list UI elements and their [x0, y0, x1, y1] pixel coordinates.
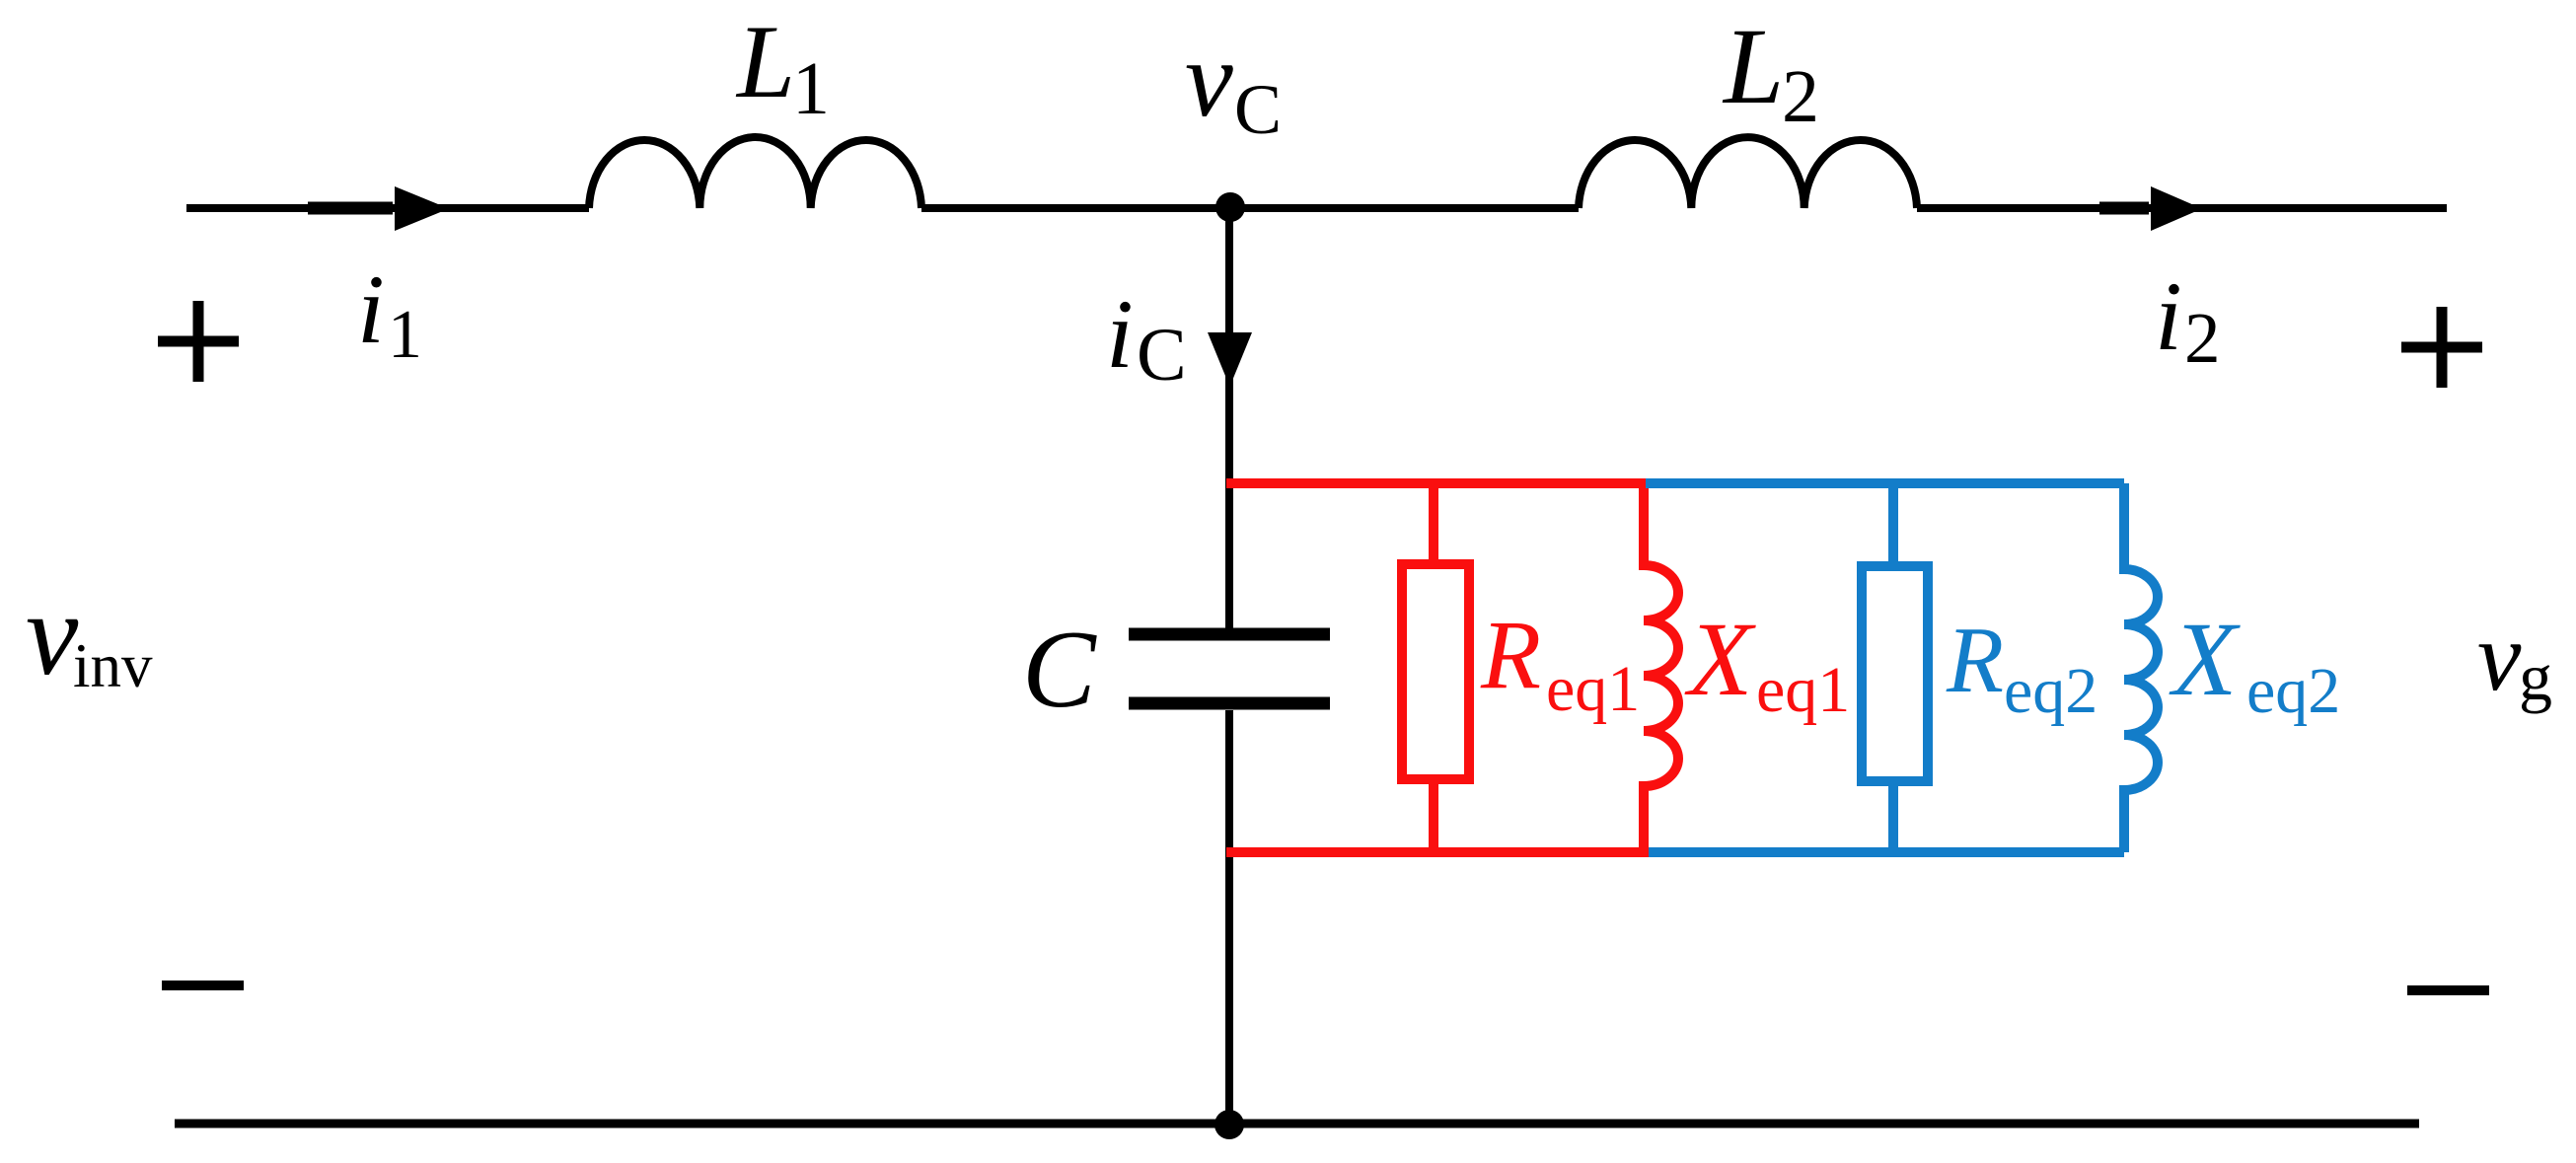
label Xeq1 [1684, 602, 1850, 726]
label i2 [2155, 261, 2221, 378]
svg-text:L: L [735, 4, 795, 119]
minus sign left [162, 981, 244, 990]
capacitor C top plate [1129, 628, 1330, 641]
svg-text:eq1: eq1 [1546, 653, 1640, 725]
node bottom junction dot [1214, 1110, 1244, 1139]
svg-text:R: R [1946, 608, 2004, 712]
inductor Xeq2 coil [2124, 483, 2158, 852]
node vC dot [1215, 192, 1245, 222]
wire blue resistor top stub [1888, 483, 1898, 562]
resistor Req2 [1862, 566, 1928, 781]
svg-text:eq2: eq2 [2246, 655, 2340, 727]
svg-text:g: g [2519, 639, 2552, 714]
label L1 [735, 4, 830, 130]
svg-text:inv: inv [73, 631, 153, 700]
wire blue resistor bottom stub [1888, 786, 1898, 852]
inductor L1 [589, 137, 921, 208]
arrow iC direction [1208, 332, 1252, 387]
label Req2 [1946, 608, 2098, 727]
svg-text:2: 2 [1782, 55, 1819, 138]
capacitor C bottom plate [1129, 697, 1330, 710]
svg-text:v: v [1185, 19, 1233, 139]
arrow i2 direction [2099, 186, 2202, 231]
wire red resistor bottom stub [1429, 784, 1438, 852]
svg-text:2: 2 [2184, 298, 2221, 378]
svg-text:C: C [1234, 70, 1282, 149]
wire blue box bottom rail [1649, 847, 2124, 857]
wire node-to-capacitor vertical [1225, 208, 1233, 628]
svg-text:C: C [1022, 609, 1097, 731]
inductor Xeq1 coil [1644, 483, 1678, 852]
plus sign right [2401, 307, 2482, 388]
arrow i1 direction [308, 186, 449, 231]
svg-text:R: R [1480, 600, 1541, 709]
wire red resistor top stub [1429, 483, 1438, 560]
wire red box top rail [1226, 478, 1646, 488]
plus sign left [158, 301, 239, 382]
svg-text:X: X [1684, 602, 1756, 718]
wire L2-to-right segment [1917, 204, 2447, 212]
wire red box bottom rail [1226, 847, 1649, 857]
wire bottom rail [175, 1120, 2419, 1128]
label L2 [1722, 6, 1819, 138]
svg-text:X: X [2169, 602, 2241, 718]
label Xeq2 [2169, 602, 2340, 727]
label iC [1106, 279, 1187, 397]
svg-text:v: v [26, 568, 79, 699]
minus sign right [2407, 985, 2489, 995]
svg-text:eq2: eq2 [2004, 655, 2098, 727]
label v_inv [26, 568, 153, 700]
label vC [1185, 19, 1282, 149]
svg-text:1: 1 [792, 47, 830, 130]
svg-text:i: i [357, 254, 385, 364]
svg-text:eq1: eq1 [1756, 654, 1850, 726]
wire capacitor-to-bottom vertical [1225, 710, 1233, 1124]
resistor Req1 [1402, 564, 1469, 779]
svg-text:v: v [2477, 602, 2522, 711]
svg-text:L: L [1722, 6, 1784, 126]
inductor L2 [1579, 137, 1917, 208]
svg-text:i: i [2155, 261, 2182, 371]
wire L1-to-node segment [921, 204, 1579, 212]
svg-text:1: 1 [388, 297, 422, 373]
wire top-left segment [186, 204, 589, 212]
label i1 [357, 254, 422, 373]
label v_g [2477, 602, 2552, 714]
wire blue box top rail [1646, 478, 2124, 488]
label Req1 [1480, 600, 1640, 725]
svg-text:i: i [1106, 279, 1134, 389]
svg-text:C: C [1137, 314, 1187, 397]
